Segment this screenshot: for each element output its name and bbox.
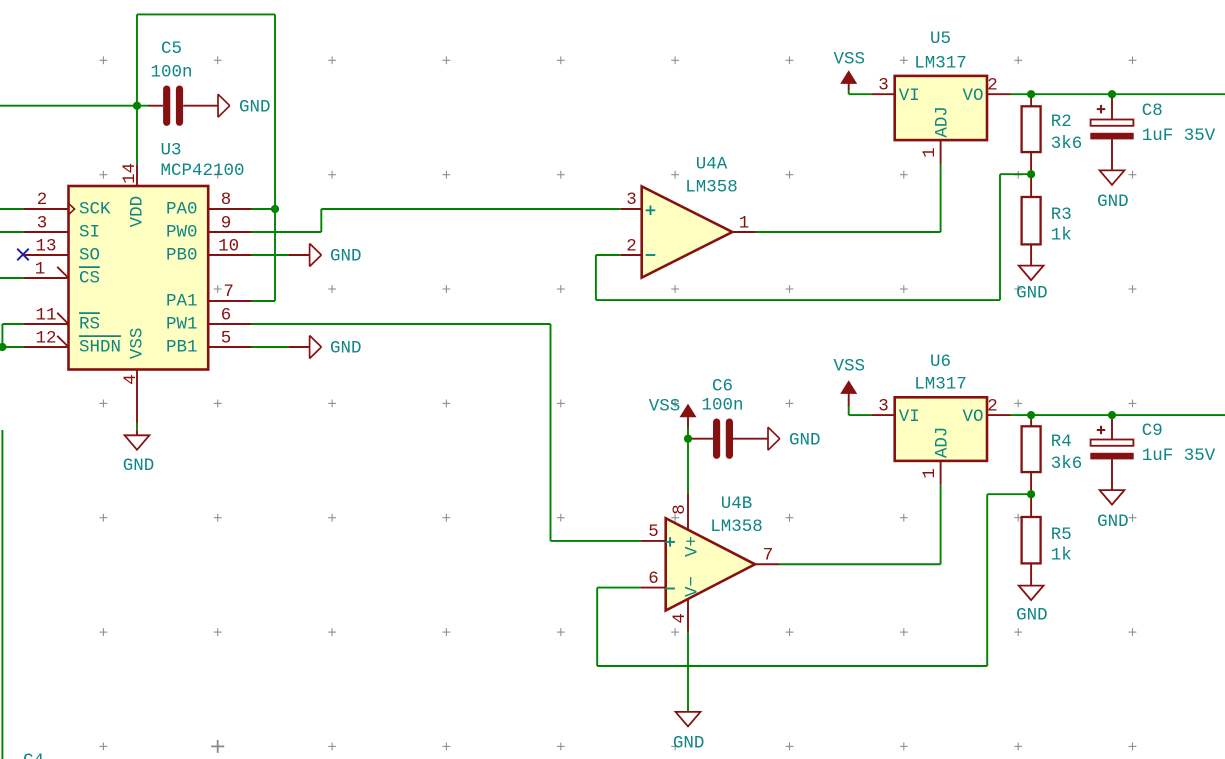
svg-text:12: 12 bbox=[35, 328, 56, 348]
svg-text:1k: 1k bbox=[1051, 546, 1072, 566]
svg-text:1: 1 bbox=[920, 147, 940, 158]
svg-text:GND: GND bbox=[330, 247, 362, 267]
svg-text:2: 2 bbox=[626, 236, 637, 256]
svg-text:2: 2 bbox=[987, 75, 998, 95]
svg-text:6: 6 bbox=[648, 569, 659, 589]
svg-text:LM317: LM317 bbox=[914, 374, 967, 394]
svg-text:VSS: VSS bbox=[833, 50, 865, 70]
svg-text:GND: GND bbox=[1016, 606, 1048, 626]
svg-text:ADJ: ADJ bbox=[932, 427, 952, 459]
svg-text:RS: RS bbox=[79, 314, 100, 334]
svg-text:VSS: VSS bbox=[128, 328, 148, 360]
svg-text:100n: 100n bbox=[150, 63, 192, 83]
svg-text:3k6: 3k6 bbox=[1051, 454, 1083, 474]
svg-text:LM358: LM358 bbox=[685, 178, 738, 198]
svg-text:U6: U6 bbox=[930, 352, 951, 372]
svg-text:C5: C5 bbox=[161, 39, 182, 59]
svg-text:9: 9 bbox=[221, 213, 232, 233]
svg-text:U3: U3 bbox=[161, 141, 182, 161]
svg-text:PW1: PW1 bbox=[166, 314, 198, 334]
svg-text:GND: GND bbox=[1097, 192, 1129, 212]
svg-text:4: 4 bbox=[121, 374, 141, 385]
svg-text:LM358: LM358 bbox=[710, 517, 763, 537]
svg-text:SCK: SCK bbox=[79, 199, 111, 219]
svg-text:2: 2 bbox=[987, 396, 998, 416]
svg-text:8: 8 bbox=[670, 504, 690, 515]
svg-text:C9: C9 bbox=[1142, 421, 1163, 441]
svg-text:5: 5 bbox=[648, 522, 659, 542]
svg-text:5: 5 bbox=[221, 328, 232, 348]
svg-text:PA1: PA1 bbox=[166, 291, 198, 311]
svg-text:VO: VO bbox=[962, 86, 983, 106]
svg-text:ADJ: ADJ bbox=[932, 106, 952, 138]
svg-text:C8: C8 bbox=[1142, 101, 1163, 121]
svg-text:VI: VI bbox=[899, 407, 920, 427]
svg-text:4: 4 bbox=[670, 613, 690, 624]
svg-text:1uF 35V: 1uF 35V bbox=[1142, 126, 1216, 146]
svg-text:1: 1 bbox=[920, 468, 940, 479]
svg-text:R3: R3 bbox=[1051, 205, 1072, 225]
svg-text:14: 14 bbox=[120, 163, 140, 184]
svg-text:R2: R2 bbox=[1051, 112, 1072, 132]
svg-text:2: 2 bbox=[37, 190, 48, 210]
svg-text:VI: VI bbox=[899, 86, 920, 106]
svg-text:GND: GND bbox=[330, 339, 362, 359]
svg-text:GND: GND bbox=[239, 97, 271, 117]
svg-text:PW0: PW0 bbox=[166, 222, 198, 242]
svg-text:PB1: PB1 bbox=[166, 337, 198, 357]
svg-text:GND: GND bbox=[1097, 512, 1129, 532]
svg-text:1uF 35V: 1uF 35V bbox=[1142, 446, 1216, 466]
svg-text:CS: CS bbox=[79, 269, 100, 289]
svg-text:C6: C6 bbox=[712, 377, 733, 397]
svg-text:V−: V− bbox=[683, 576, 703, 597]
svg-text:SI: SI bbox=[79, 222, 100, 242]
svg-text:1: 1 bbox=[35, 260, 46, 280]
svg-text:U5: U5 bbox=[930, 29, 951, 49]
svg-text:SO: SO bbox=[79, 246, 100, 266]
svg-text:PA0: PA0 bbox=[166, 199, 198, 219]
svg-text:7: 7 bbox=[763, 546, 774, 566]
svg-text:GND: GND bbox=[123, 456, 155, 476]
svg-text:1k: 1k bbox=[1051, 226, 1072, 246]
svg-text:GND: GND bbox=[673, 734, 705, 754]
svg-text:8: 8 bbox=[221, 190, 232, 210]
svg-text:13: 13 bbox=[35, 236, 56, 256]
svg-text:3: 3 bbox=[626, 190, 637, 210]
svg-text:VSS: VSS bbox=[833, 357, 865, 377]
svg-text:VSS: VSS bbox=[649, 397, 681, 417]
svg-text:3k6: 3k6 bbox=[1051, 134, 1083, 154]
svg-text:R5: R5 bbox=[1051, 525, 1072, 545]
svg-text:100n: 100n bbox=[701, 395, 743, 415]
svg-text:GND: GND bbox=[1016, 284, 1048, 304]
svg-text:U4B: U4B bbox=[721, 494, 753, 514]
svg-text:1: 1 bbox=[739, 213, 750, 233]
svg-text:GND: GND bbox=[789, 431, 821, 451]
svg-text:6: 6 bbox=[221, 305, 232, 325]
svg-text:3: 3 bbox=[37, 213, 48, 233]
svg-text:3: 3 bbox=[878, 396, 889, 416]
svg-text:10: 10 bbox=[218, 236, 239, 256]
svg-text:C4: C4 bbox=[23, 751, 44, 759]
svg-text:VDD: VDD bbox=[128, 196, 148, 228]
svg-text:R4: R4 bbox=[1051, 432, 1072, 452]
svg-text:VO: VO bbox=[962, 407, 983, 427]
svg-text:11: 11 bbox=[35, 305, 56, 325]
svg-text:V+: V+ bbox=[683, 536, 703, 557]
svg-text:PB0: PB0 bbox=[166, 246, 198, 266]
svg-text:MCP42100: MCP42100 bbox=[161, 161, 245, 181]
svg-text:3: 3 bbox=[878, 75, 889, 95]
svg-text:LM317: LM317 bbox=[914, 54, 967, 74]
svg-text:U4A: U4A bbox=[696, 155, 728, 175]
svg-text:7: 7 bbox=[223, 282, 234, 302]
svg-text:SHDN: SHDN bbox=[79, 337, 121, 357]
